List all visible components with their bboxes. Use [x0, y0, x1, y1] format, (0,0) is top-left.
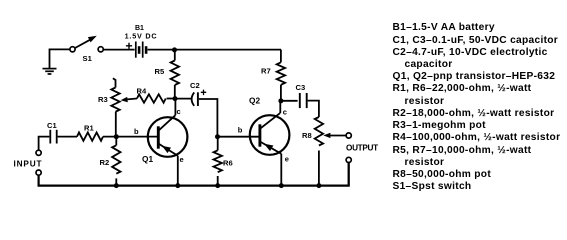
svg-text:Q1: Q1 — [142, 154, 153, 164]
svg-text:R8: R8 — [302, 131, 312, 140]
svg-text:1.5V DC: 1.5V DC — [125, 31, 158, 40]
svg-text:OUTPUT: OUTPUT — [346, 144, 378, 153]
svg-text:R4: R4 — [137, 87, 147, 96]
svg-text:R5: R5 — [155, 67, 165, 76]
svg-text:S1: S1 — [83, 54, 93, 63]
svg-text:R3: R3 — [98, 95, 108, 104]
svg-text:Q2: Q2 — [249, 96, 260, 106]
svg-text:e: e — [285, 155, 289, 164]
svg-text:C2: C2 — [190, 81, 200, 90]
svg-text:R6: R6 — [223, 159, 233, 168]
svg-text:INPUT: INPUT — [14, 160, 43, 169]
svg-text:C3: C3 — [296, 83, 306, 92]
svg-text:b: b — [238, 126, 243, 135]
svg-text:R1: R1 — [84, 124, 94, 133]
svg-text:R7: R7 — [261, 66, 271, 75]
svg-text:e: e — [180, 155, 184, 164]
svg-text:c: c — [177, 107, 181, 116]
svg-text:R2: R2 — [100, 158, 110, 167]
svg-text:b: b — [134, 127, 139, 136]
svg-text:C1: C1 — [47, 121, 57, 130]
svg-text:c: c — [283, 108, 287, 117]
